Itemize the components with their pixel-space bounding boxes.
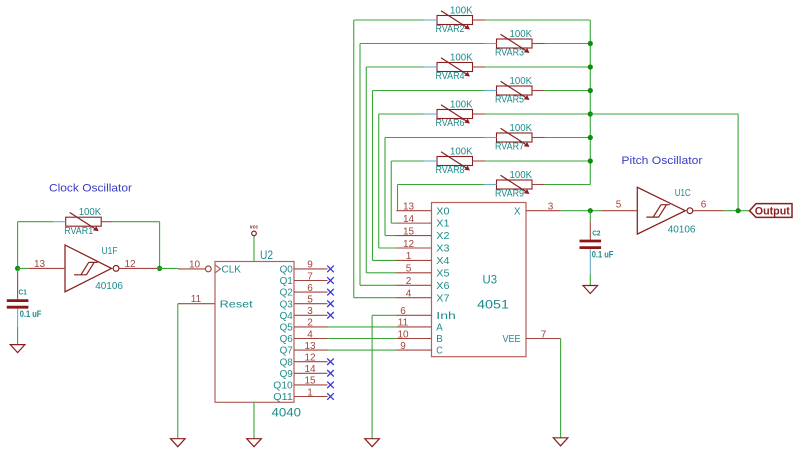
svg-text:Q1: Q1 [280,275,293,287]
svg-text:U2: U2 [260,248,273,262]
svg-text:X6: X6 [436,280,449,292]
svg-text:Q11: Q11 [273,391,293,403]
svg-text:Q4: Q4 [280,310,293,322]
svg-text:Output: Output [755,206,790,218]
svg-text:Q10: Q10 [273,380,293,392]
svg-text:U1C: U1C [675,188,691,199]
svg-text:3: 3 [307,306,313,317]
svg-text:9: 9 [307,260,313,271]
svg-text:40106: 40106 [668,224,696,235]
svg-text:C1: C1 [19,288,28,297]
svg-text:Q9: Q9 [280,368,293,380]
svg-text:100K: 100K [510,29,533,40]
svg-text:12: 12 [403,239,415,250]
svg-text:6: 6 [701,200,707,211]
svg-text:13: 13 [304,341,316,352]
svg-text:Q5: Q5 [280,322,293,334]
svg-text:Q3: Q3 [280,298,293,310]
svg-text:1: 1 [307,387,313,398]
svg-text:14: 14 [403,214,415,225]
svg-text:2: 2 [406,276,412,287]
svg-text:13: 13 [403,202,415,213]
svg-text:13: 13 [34,259,46,270]
svg-text:U3: U3 [483,273,498,287]
svg-text:7: 7 [541,329,547,340]
svg-text:4: 4 [307,329,313,340]
svg-text:Pitch Oscillator: Pitch Oscillator [621,155,702,167]
svg-text:X5: X5 [436,267,449,279]
svg-text:RVAR1: RVAR1 [64,226,93,237]
svg-text:5: 5 [616,200,622,211]
svg-text:12: 12 [124,259,136,270]
svg-text:Reset: Reset [220,298,253,310]
svg-text:5: 5 [406,264,412,275]
svg-text:Q2: Q2 [280,287,293,299]
svg-text:100K: 100K [450,99,473,110]
svg-text:X1: X1 [436,218,449,230]
svg-text:RVAR3: RVAR3 [495,48,524,59]
svg-text:12: 12 [304,353,316,364]
svg-text:RVAR2: RVAR2 [436,24,465,35]
svg-text:vcc: vcc [250,225,259,231]
svg-text:100K: 100K [510,76,533,87]
svg-text:100K: 100K [510,170,533,181]
svg-text:5: 5 [307,295,313,306]
svg-text:X4: X4 [436,255,449,267]
svg-text:U1F: U1F [102,246,118,257]
svg-text:RVAR5: RVAR5 [495,95,524,106]
svg-text:40106: 40106 [95,281,123,292]
svg-text:RVAR8: RVAR8 [436,165,465,176]
svg-text:14: 14 [304,364,316,375]
svg-text:X2: X2 [436,230,449,242]
svg-text:C2: C2 [592,229,600,238]
svg-text:9: 9 [400,341,406,352]
svg-text:C: C [436,345,443,357]
svg-text:11: 11 [191,294,202,305]
svg-text:100K: 100K [450,52,473,63]
svg-text:VEE: VEE [503,333,521,345]
svg-text:Q7: Q7 [280,345,293,357]
svg-text:X3: X3 [436,243,449,255]
svg-text:B: B [436,333,443,345]
svg-text:Inh: Inh [436,310,456,322]
svg-text:100K: 100K [450,146,473,157]
svg-text:6: 6 [400,306,406,317]
svg-text:CLK: CLK [222,264,242,276]
svg-text:Clock Oscillator: Clock Oscillator [49,182,132,194]
svg-text:3: 3 [548,202,554,213]
svg-text:4051: 4051 [477,298,509,312]
svg-text:2: 2 [307,318,313,329]
svg-text:X7: X7 [436,292,449,304]
svg-text:4: 4 [406,289,412,300]
svg-text:X: X [514,205,521,217]
svg-text:X0: X0 [436,205,449,217]
svg-text:10: 10 [189,259,201,270]
svg-text:100K: 100K [510,123,533,134]
svg-text:15: 15 [304,376,316,387]
svg-text:11: 11 [398,318,409,329]
svg-text:RVAR4: RVAR4 [436,71,465,82]
svg-text:RVAR7: RVAR7 [495,142,524,153]
svg-text:RVAR9: RVAR9 [495,189,524,200]
svg-text:Q0: Q0 [280,264,293,276]
svg-text:100K: 100K [79,207,102,218]
svg-text:0.1 uF: 0.1 uF [20,309,42,319]
svg-text:100K: 100K [450,5,473,16]
svg-text:1: 1 [406,251,412,262]
svg-text:7: 7 [307,271,313,282]
svg-text:6: 6 [307,283,313,294]
svg-text:Q6: Q6 [280,333,293,345]
svg-text:15: 15 [403,226,415,237]
svg-text:10: 10 [397,329,409,340]
svg-text:0.1 uF: 0.1 uF [592,250,614,260]
svg-text:4040: 4040 [272,406,302,420]
svg-text:RVAR6: RVAR6 [436,118,465,129]
svg-text:A: A [436,322,443,334]
svg-text:Q8: Q8 [280,356,293,368]
